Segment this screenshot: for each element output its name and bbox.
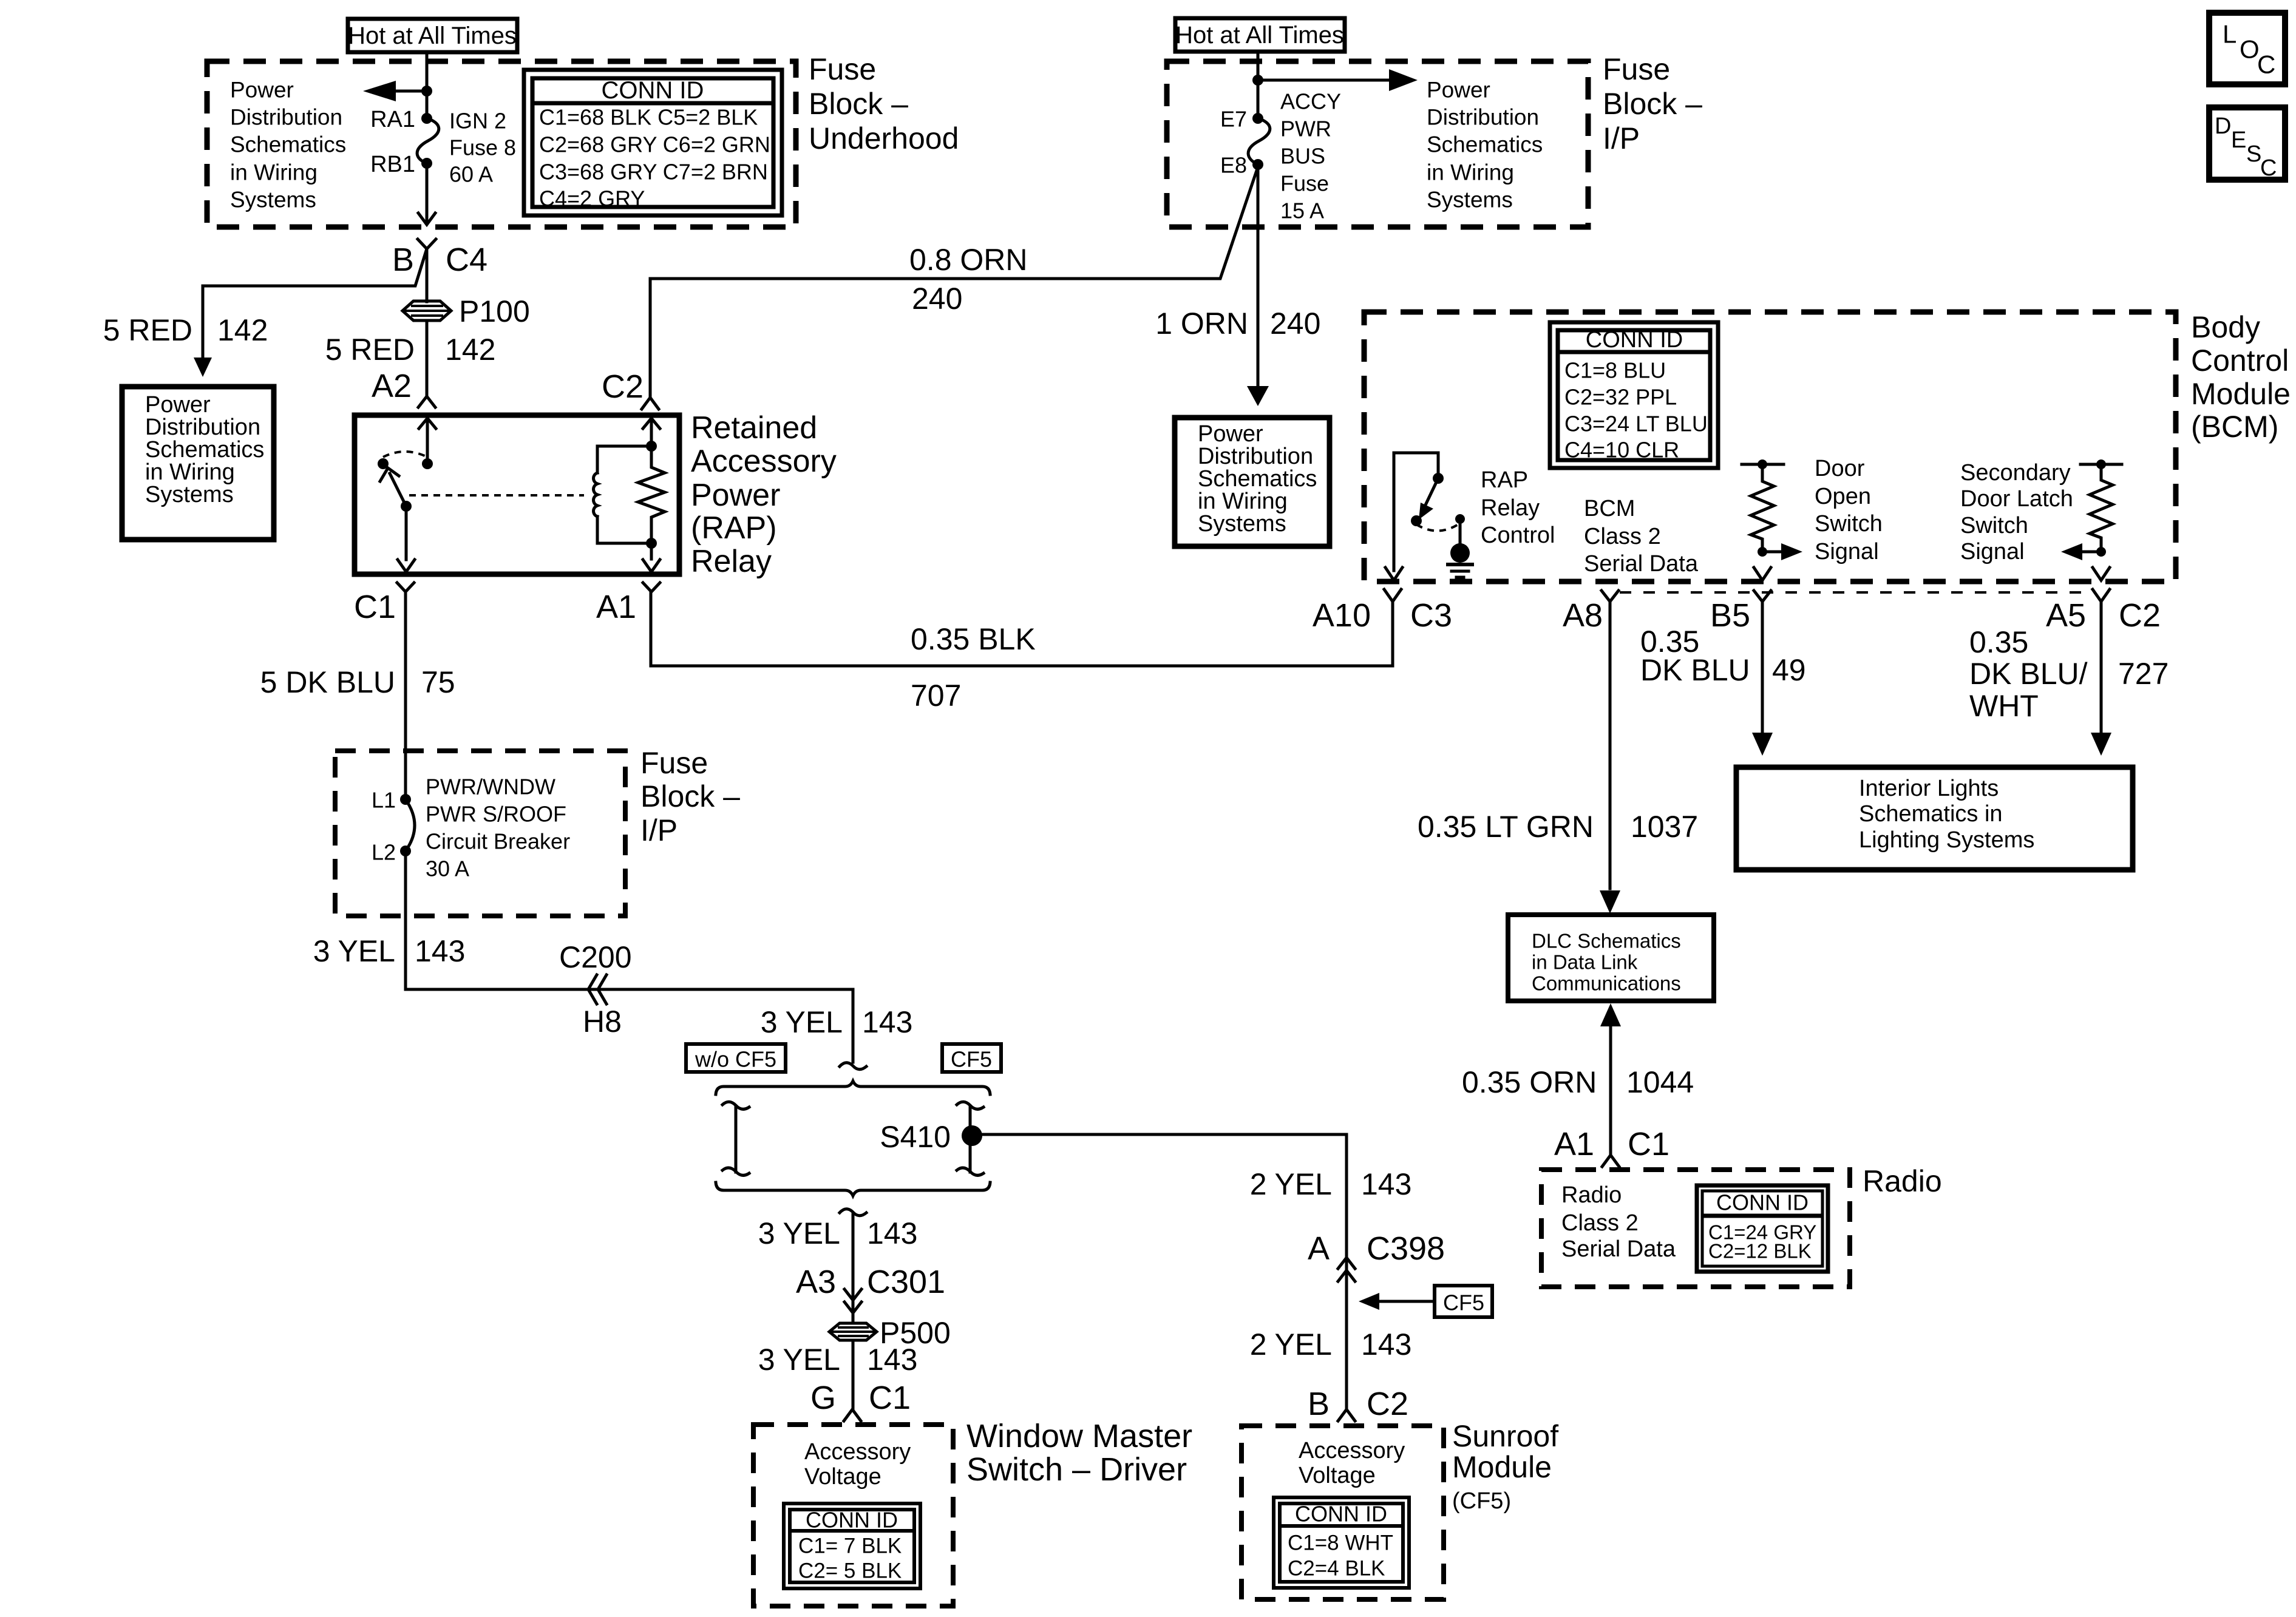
svg-text:Communications: Communications: [1532, 972, 1681, 995]
svg-text:C: C: [2260, 155, 2277, 181]
svg-text:Sunroof: Sunroof: [1452, 1419, 1558, 1453]
svg-text:Interior Lights: Interior Lights: [1859, 776, 1999, 801]
svg-text:C3=24 LT BLU: C3=24 LT BLU: [1564, 412, 1708, 436]
connector fork at relay pin A2: [418, 396, 435, 407]
label box "Hot at All Times" (right): [1175, 18, 1345, 52]
svg-text:C3=68 GRY C7=2 BRN: C3=68 GRY C7=2 BRN: [539, 160, 768, 185]
svg-text:Schematics: Schematics: [1427, 132, 1543, 157]
svg-text:P100: P100: [459, 294, 530, 328]
wire 1 ORN from E8 down: [1257, 164, 1260, 386]
svg-text:IGN 2: IGN 2: [449, 109, 506, 134]
connector fork A10/C3: [1384, 589, 1401, 602]
connector fork at relay pin C1: [397, 583, 414, 611]
fuse ACCY terminal E8: [1252, 159, 1263, 170]
svg-text:1037: 1037: [1631, 810, 1698, 844]
wire 3 YEL 143 down to C301: [852, 1215, 855, 1323]
svg-text:O: O: [2240, 35, 2260, 64]
fuse IGN2 terminal RB1: [421, 158, 432, 169]
resistor secondary door latch: [2090, 464, 2113, 552]
svg-text:142: 142: [445, 333, 495, 367]
option box CF5: [942, 1044, 1001, 1072]
svg-text:A8: A8: [1563, 597, 1603, 634]
connector C4 fork below fuse block: [418, 239, 436, 254]
connector fork at relay pin C2: [642, 398, 659, 409]
connector fork at radio C1: [1602, 1155, 1619, 1167]
svg-text:Window Master: Window Master: [966, 1418, 1192, 1454]
svg-text:C1: C1: [869, 1380, 911, 1416]
wire blade down to relay exit: [405, 506, 408, 560]
svg-text:2 YEL: 2 YEL: [1250, 1327, 1332, 1361]
svg-text:in Wiring: in Wiring: [1427, 160, 1514, 185]
svg-text:143: 143: [1361, 1167, 1411, 1201]
wire 3 YEL 143 from breaker to C200 and S410 drop: [406, 851, 853, 1062]
node dot below resistor: [2096, 547, 2106, 557]
arrow (open) at relay exit A1: [643, 560, 660, 572]
svg-text:Block –: Block –: [640, 779, 740, 813]
wire from Hot at All Times down: [426, 52, 429, 115]
svg-text:in Wiring: in Wiring: [230, 160, 318, 185]
Window Master Switch dashed box: [753, 1425, 953, 1606]
svg-text:Radio: Radio: [1863, 1164, 1942, 1198]
wire 0.35 DK BLU 49 down to interior lights: [1761, 602, 1764, 733]
svg-text:C4: C4: [446, 242, 487, 278]
secondary door latch pull-up bar: [2080, 459, 2122, 469]
svg-text:C2=12 BLK: C2=12 BLK: [1708, 1240, 1812, 1263]
svg-text:C1: C1: [1628, 1126, 1669, 1162]
svg-text:Systems: Systems: [1427, 188, 1513, 212]
svg-text:WHT: WHT: [1969, 689, 2039, 723]
resistor door open switch: [1751, 464, 1774, 552]
fuse ACCY PWR BUS element: [1248, 118, 1270, 164]
wire 0.35 DK BLU/WHT 727 down to interior lights: [2100, 602, 2103, 733]
svg-text:Systems: Systems: [1198, 511, 1286, 537]
svg-text:RA1: RA1: [370, 107, 415, 132]
svg-text:BCM: BCM: [1584, 496, 1635, 521]
key box DESC: [2209, 107, 2285, 181]
value label PWR/WNDW PWR S/ROOF Circuit Breaker 30 A: [426, 775, 570, 881]
svg-text:DK BLU: DK BLU: [1640, 653, 1750, 687]
node dot coil/resistor bottom: [646, 538, 657, 549]
svg-text:PWR: PWR: [1280, 117, 1331, 141]
svg-text:L: L: [2223, 20, 2237, 49]
BCM dashed box: [1364, 312, 2176, 581]
arrow into interior lights box (down): [2091, 733, 2111, 756]
svg-text:15 A: 15 A: [1280, 198, 1324, 223]
svg-text:Schematics in: Schematics in: [1859, 801, 2003, 827]
svg-text:S410: S410: [880, 1120, 951, 1154]
connector fork at sunroof C2: [1338, 1409, 1355, 1421]
arrow (open) at relay exit C1: [398, 560, 415, 572]
arrow (open) at underhood box exit: [418, 213, 435, 225]
brace bottom: [716, 1182, 990, 1196]
ground stub: [1459, 519, 1462, 544]
svg-text:A1: A1: [596, 589, 636, 625]
component label Retained Accessory Power (RAP) Relay: [691, 410, 837, 579]
svg-text:B: B: [392, 242, 414, 278]
svg-text:RB1: RB1: [370, 152, 415, 177]
arrow from CF5 to wire: [1359, 1293, 1435, 1310]
svg-text:B: B: [1308, 1386, 1330, 1422]
connector C398 double chevron: [1338, 1258, 1355, 1281]
connector fork A8: [1601, 591, 1618, 602]
node junction dot: [1252, 75, 1263, 86]
svg-text:ACCY: ACCY: [1280, 89, 1341, 114]
svg-text:w/o CF5: w/o CF5: [695, 1047, 776, 1072]
dashed throw arc: [383, 452, 427, 457]
svg-text:Fuse: Fuse: [1603, 52, 1670, 86]
svg-text:Systems: Systems: [230, 188, 316, 212]
svg-text:C1=8 BLU: C1=8 BLU: [1564, 358, 1666, 383]
box Power Distribution Schematics (left): [122, 387, 274, 540]
svg-text:Signal: Signal: [1815, 539, 1879, 564]
svg-text:Switch: Switch: [1815, 511, 1883, 537]
svg-text:3 YEL: 3 YEL: [758, 1343, 840, 1377]
dashed actuation line: [409, 494, 584, 497]
svg-text:I/P: I/P: [1603, 121, 1640, 155]
svg-text:143: 143: [867, 1216, 917, 1250]
svg-text:PWR/WNDW: PWR/WNDW: [426, 775, 555, 799]
svg-text:Serial Data: Serial Data: [1584, 551, 1699, 577]
svg-text:PWR S/ROOF: PWR S/ROOF: [426, 802, 566, 827]
wire break squiggle (bottom): [840, 1209, 866, 1216]
svg-text:5 RED: 5 RED: [325, 333, 415, 367]
svg-text:E8: E8: [1220, 153, 1247, 178]
svg-text:Hot at All Times: Hot at All Times: [1175, 22, 1344, 49]
wire branch to left power distribution: [203, 251, 426, 358]
svg-text:Fuse 8: Fuse 8: [449, 135, 516, 160]
svg-text:G: G: [810, 1380, 836, 1416]
svg-text:Retained: Retained: [691, 410, 817, 446]
RAP relay control hook wire: [1394, 453, 1438, 571]
svg-text:Voltage: Voltage: [1299, 1463, 1376, 1488]
box Power Distribution Schematics (middle): [1175, 418, 1330, 546]
svg-text:Accessory: Accessory: [1299, 1438, 1405, 1463]
svg-text:CONN ID: CONN ID: [1586, 327, 1683, 353]
svg-text:C2= 5 BLK: C2= 5 BLK: [798, 1559, 902, 1583]
svg-text:143: 143: [415, 934, 465, 968]
svg-text:30 A: 30 A: [426, 856, 469, 881]
svg-text:Block –: Block –: [809, 87, 908, 121]
wire C4 down to P100: [426, 252, 429, 302]
svg-text:3 YEL: 3 YEL: [761, 1005, 843, 1039]
text Accessory Voltage: [804, 1439, 911, 1490]
connector fork A5/C2: [2093, 589, 2110, 602]
connector C200 double chevron: [588, 975, 606, 1004]
option box w/o CF5: [686, 1044, 786, 1072]
svg-text:0.35: 0.35: [1969, 625, 2028, 659]
wire 0.35 BLK 707 from A10 to relay A1: [651, 592, 1393, 666]
svg-text:DLC Schematics: DLC Schematics: [1532, 930, 1681, 952]
svg-text:Control: Control: [1481, 523, 1555, 548]
svg-text:CONN ID: CONN ID: [1716, 1190, 1809, 1215]
Fuse Block I/P dashed box (circuit breaker): [335, 751, 625, 916]
svg-text:Signal: Signal: [1960, 539, 2025, 564]
Fuse Block Underhood dashed box: [207, 61, 796, 227]
svg-text:49: 49: [1772, 653, 1806, 687]
svg-text:S: S: [2246, 141, 2261, 167]
svg-text:C: C: [2257, 50, 2275, 79]
svg-text:1 ORN: 1 ORN: [1155, 307, 1248, 341]
option box CF5 (C398): [1435, 1286, 1492, 1317]
svg-text:Schematics: Schematics: [145, 437, 264, 463]
wire 2 YEL 143 from S410 right and down: [982, 1134, 1347, 1409]
svg-text:Distribution: Distribution: [1198, 444, 1313, 469]
wire 0.35 ORN up from radio to DLC: [1609, 1027, 1612, 1155]
svg-text:1044: 1044: [1626, 1065, 1694, 1099]
text BCM Class 2 Serial Data: [1584, 496, 1699, 577]
svg-text:Power: Power: [1427, 78, 1490, 103]
component label "Fuse Block - Underhood": [809, 52, 959, 155]
svg-text:Power: Power: [145, 392, 211, 418]
fuse IGN 2 Fuse 8 element: [417, 118, 439, 163]
svg-text:(RAP): (RAP): [691, 510, 777, 546]
svg-text:E: E: [2231, 127, 2246, 153]
svg-text:CF5: CF5: [951, 1047, 992, 1072]
text Power Distribution Schematics (I/P box): [1427, 78, 1543, 212]
svg-text:Fuse: Fuse: [640, 746, 708, 780]
svg-text:0.35 ORN: 0.35 ORN: [1462, 1065, 1597, 1099]
svg-text:I/P: I/P: [640, 813, 678, 847]
arrow to power distribution (left): [363, 81, 427, 101]
secondary latch signal arrow (left): [2061, 543, 2101, 560]
svg-text:Class 2: Class 2: [1584, 524, 1661, 549]
svg-text:C2=32 PPL: C2=32 PPL: [1564, 385, 1677, 410]
svg-text:Door: Door: [1815, 456, 1865, 481]
text Door Open Switch Signal: [1815, 456, 1883, 564]
wire 3 YEL 143 down to window switch: [852, 1341, 855, 1409]
component label Body Control Module (BCM): [2191, 310, 2291, 444]
svg-text:Radio: Radio: [1561, 1182, 1622, 1208]
svg-text:Lighting Systems: Lighting Systems: [1859, 827, 2034, 853]
svg-text:Fuse: Fuse: [1280, 171, 1329, 196]
fuse IGN2 terminal RA1: [421, 113, 432, 124]
C2 entry arrow into relay: [643, 418, 660, 446]
svg-text:Class 2: Class 2: [1561, 1210, 1639, 1236]
switch fixed contact dot: [378, 458, 389, 469]
value label IGN 2 Fuse 8 60 A: [449, 109, 516, 187]
svg-text:C2: C2: [602, 368, 644, 405]
svg-text:60 A: 60 A: [449, 162, 493, 187]
wire RB1 down to box edge: [426, 163, 429, 223]
svg-text:A1: A1: [1554, 1126, 1594, 1162]
svg-text:Body: Body: [2191, 310, 2260, 344]
thin dashed connector face line: [1620, 591, 2091, 594]
svg-text:CONN ID: CONN ID: [806, 1508, 898, 1533]
connector fork at relay pin A1: [643, 583, 660, 592]
wire 5 DK BLU 75 from relay C1 down: [404, 592, 407, 796]
wire resistor bottom to relay exit: [650, 543, 653, 559]
RAP control switch blade with arrow: [1419, 478, 1438, 520]
svg-text:Switch: Switch: [1960, 513, 2028, 538]
svg-text:Secondary: Secondary: [1960, 460, 2071, 486]
arrow (open) at BCM exit A5: [2093, 568, 2110, 580]
svg-text:E7: E7: [1220, 107, 1247, 132]
fuse ACCY terminal E7: [1252, 113, 1263, 124]
option bracket left: [722, 1102, 749, 1175]
text Radio Class 2 Serial Data: [1561, 1182, 1676, 1262]
text Secondary Door Latch Switch Signal: [1960, 460, 2073, 564]
svg-text:Module: Module: [2191, 377, 2291, 411]
svg-text:L1: L1: [372, 788, 396, 813]
svg-text:A5: A5: [2046, 597, 2086, 634]
svg-text:CONN ID: CONN ID: [1295, 1502, 1387, 1527]
Radio dashed box: [1541, 1170, 1850, 1287]
svg-text:BUS: BUS: [1280, 144, 1325, 169]
wire P100 down to relay A2: [426, 320, 429, 396]
svg-text:Relay: Relay: [1481, 495, 1540, 521]
relay internal resistor: [638, 446, 665, 543]
svg-text:240: 240: [1270, 307, 1320, 341]
svg-text:Control: Control: [2191, 344, 2289, 378]
connector C301 double chevron: [844, 1289, 861, 1313]
svg-text:C2=68 GRY C6=2 GRN: C2=68 GRY C6=2 GRN: [539, 132, 770, 157]
svg-text:Serial Data: Serial Data: [1561, 1236, 1676, 1262]
svg-text:CONN ID: CONN ID: [602, 77, 704, 104]
svg-text:CF5: CF5: [1443, 1290, 1484, 1315]
svg-text:75: 75: [421, 665, 455, 699]
svg-text:in Wiring: in Wiring: [1198, 489, 1288, 514]
ground ball: [1450, 543, 1470, 563]
arrow (open) at BCM exit C3: [1385, 568, 1402, 580]
svg-text:Distribution: Distribution: [230, 105, 342, 130]
svg-text:707: 707: [911, 679, 961, 713]
CONN ID table (radio): [1697, 1185, 1828, 1272]
svg-text:Door Latch: Door Latch: [1960, 486, 2073, 512]
svg-text:142: 142: [217, 313, 268, 347]
svg-text:C3: C3: [1410, 597, 1452, 634]
svg-text:C200: C200: [559, 940, 632, 974]
svg-text:Fuse: Fuse: [809, 52, 876, 86]
svg-text:A: A: [1308, 1230, 1330, 1267]
ground contact dot: [1455, 514, 1465, 524]
svg-text:Switch – Driver: Switch – Driver: [966, 1451, 1187, 1488]
svg-text:in Data Link: in Data Link: [1532, 951, 1638, 974]
svg-text:Circuit Breaker: Circuit Breaker: [426, 829, 570, 854]
svg-text:C2=4 BLK: C2=4 BLK: [1288, 1557, 1385, 1581]
svg-text:in Wiring: in Wiring: [145, 459, 235, 485]
RAP control lower contact dot: [1411, 515, 1422, 526]
text Accessory Voltage: [1299, 1438, 1405, 1488]
svg-text:Power: Power: [691, 478, 780, 513]
RAP control upper contact dot: [1433, 473, 1444, 484]
splice S410 dot: [962, 1125, 982, 1146]
svg-text:143: 143: [1361, 1327, 1411, 1361]
connector fork at window switch C1: [844, 1409, 861, 1421]
Fuse Block I/P dashed box: [1167, 61, 1588, 227]
component label Window Master Switch - Driver: [966, 1418, 1192, 1488]
arrow into power distribution box (down): [194, 358, 212, 377]
svg-text:C398: C398: [1367, 1230, 1445, 1267]
svg-text:C301: C301: [867, 1264, 945, 1300]
svg-text:C4=10 CLR: C4=10 CLR: [1564, 438, 1679, 463]
svg-text:0.8 ORN: 0.8 ORN: [909, 243, 1028, 277]
ground symbol: [1446, 564, 1474, 577]
switch blade pivot dot: [401, 501, 412, 512]
A2 entry arrow into relay: [419, 418, 436, 459]
value label ACCY PWR BUS Fuse 15 A: [1280, 89, 1341, 223]
svg-text:C1=8 WHT: C1=8 WHT: [1288, 1531, 1393, 1555]
svg-text:B5: B5: [1710, 597, 1750, 634]
key box LOC: [2209, 13, 2285, 84]
svg-text:H8: H8: [583, 1005, 622, 1039]
svg-text:143: 143: [862, 1005, 912, 1039]
wire 0.35 LT GRN down to DLC: [1609, 602, 1612, 889]
node junction dot: [421, 86, 432, 97]
label box "Hot at All Times" (left): [348, 19, 517, 52]
switch common contact dot: [422, 458, 433, 469]
option bracket right: [957, 1102, 983, 1175]
svg-text:0.35 LT GRN: 0.35 LT GRN: [1418, 810, 1594, 844]
svg-text:Power: Power: [1198, 421, 1263, 447]
svg-text:C2: C2: [1367, 1386, 1408, 1422]
arrow into DLC box (down): [1600, 890, 1620, 914]
svg-text:Schematics: Schematics: [230, 132, 346, 157]
svg-text:RAP: RAP: [1481, 467, 1528, 493]
svg-text:Voltage: Voltage: [804, 1464, 881, 1490]
relay coil: [594, 446, 597, 543]
svg-text:C1= 7 BLK: C1= 7 BLK: [798, 1534, 902, 1558]
component label Sunroof Module (CF5): [1452, 1419, 1558, 1514]
svg-text:D: D: [2215, 114, 2231, 139]
wire label 0.35 DK BLU: [1640, 625, 1750, 687]
Sunroof Module dashed box: [1241, 1426, 1444, 1599]
node dot below resistor: [1758, 547, 1767, 557]
svg-text:0.35 BLK: 0.35 BLK: [911, 622, 1036, 656]
door open signal arrow (right): [1762, 543, 1802, 560]
text Power Distribution Schematics (underhood box): [230, 78, 346, 212]
svg-text:5 DK BLU: 5 DK BLU: [260, 665, 395, 699]
svg-text:Module: Module: [1452, 1450, 1552, 1484]
svg-text:Systems: Systems: [145, 482, 234, 507]
svg-text:2 YEL: 2 YEL: [1250, 1167, 1332, 1201]
svg-text:240: 240: [912, 282, 962, 316]
svg-text:5 RED: 5 RED: [103, 313, 192, 347]
switch blade with arrow: [380, 468, 406, 506]
box DLC Schematics: [1508, 915, 1714, 1001]
brace top: [716, 1081, 990, 1094]
component label "Fuse Block - I/P": [1603, 52, 1702, 155]
CONN ID table (underhood): [524, 70, 782, 215]
svg-text:Schematics: Schematics: [1198, 466, 1317, 492]
svg-text:C2: C2: [2119, 597, 2161, 634]
svg-text:Block –: Block –: [1603, 87, 1702, 121]
door open switch pull-up bar: [1742, 459, 1784, 469]
arrow to power distribution (right): [1258, 69, 1418, 91]
svg-text:Accessory: Accessory: [691, 444, 837, 479]
box Interior Lights Schematics: [1736, 767, 2133, 870]
wire from Hot at All Times down to E7: [1257, 52, 1260, 115]
wire label 0.35 DK BLU/WHT: [1969, 625, 2088, 723]
svg-text:A3: A3: [796, 1264, 836, 1300]
svg-text:L2: L2: [372, 840, 396, 865]
arrow (open) at BCM exit B5: [1754, 568, 1771, 580]
svg-text:C4=2 GRY: C4=2 GRY: [539, 186, 645, 211]
dashed throw arc (BCM switch): [1416, 523, 1460, 531]
svg-text:Accessory: Accessory: [804, 1439, 911, 1465]
text RAP Relay Control: [1481, 467, 1555, 548]
svg-text:Hot at All Times: Hot at All Times: [348, 22, 517, 49]
arrow into power distribution box (down): [1247, 386, 1269, 406]
svg-text:Power: Power: [230, 78, 294, 103]
coil bottom lead: [597, 542, 651, 545]
CONN ID table (sunroof): [1274, 1497, 1409, 1588]
svg-text:143: 143: [867, 1343, 917, 1377]
grommet P500: [829, 1323, 877, 1340]
CONN ID table (window switch): [784, 1503, 920, 1588]
svg-text:Open: Open: [1815, 484, 1871, 509]
svg-text:Distribution: Distribution: [1427, 105, 1539, 130]
svg-text:3 YEL: 3 YEL: [313, 934, 395, 968]
